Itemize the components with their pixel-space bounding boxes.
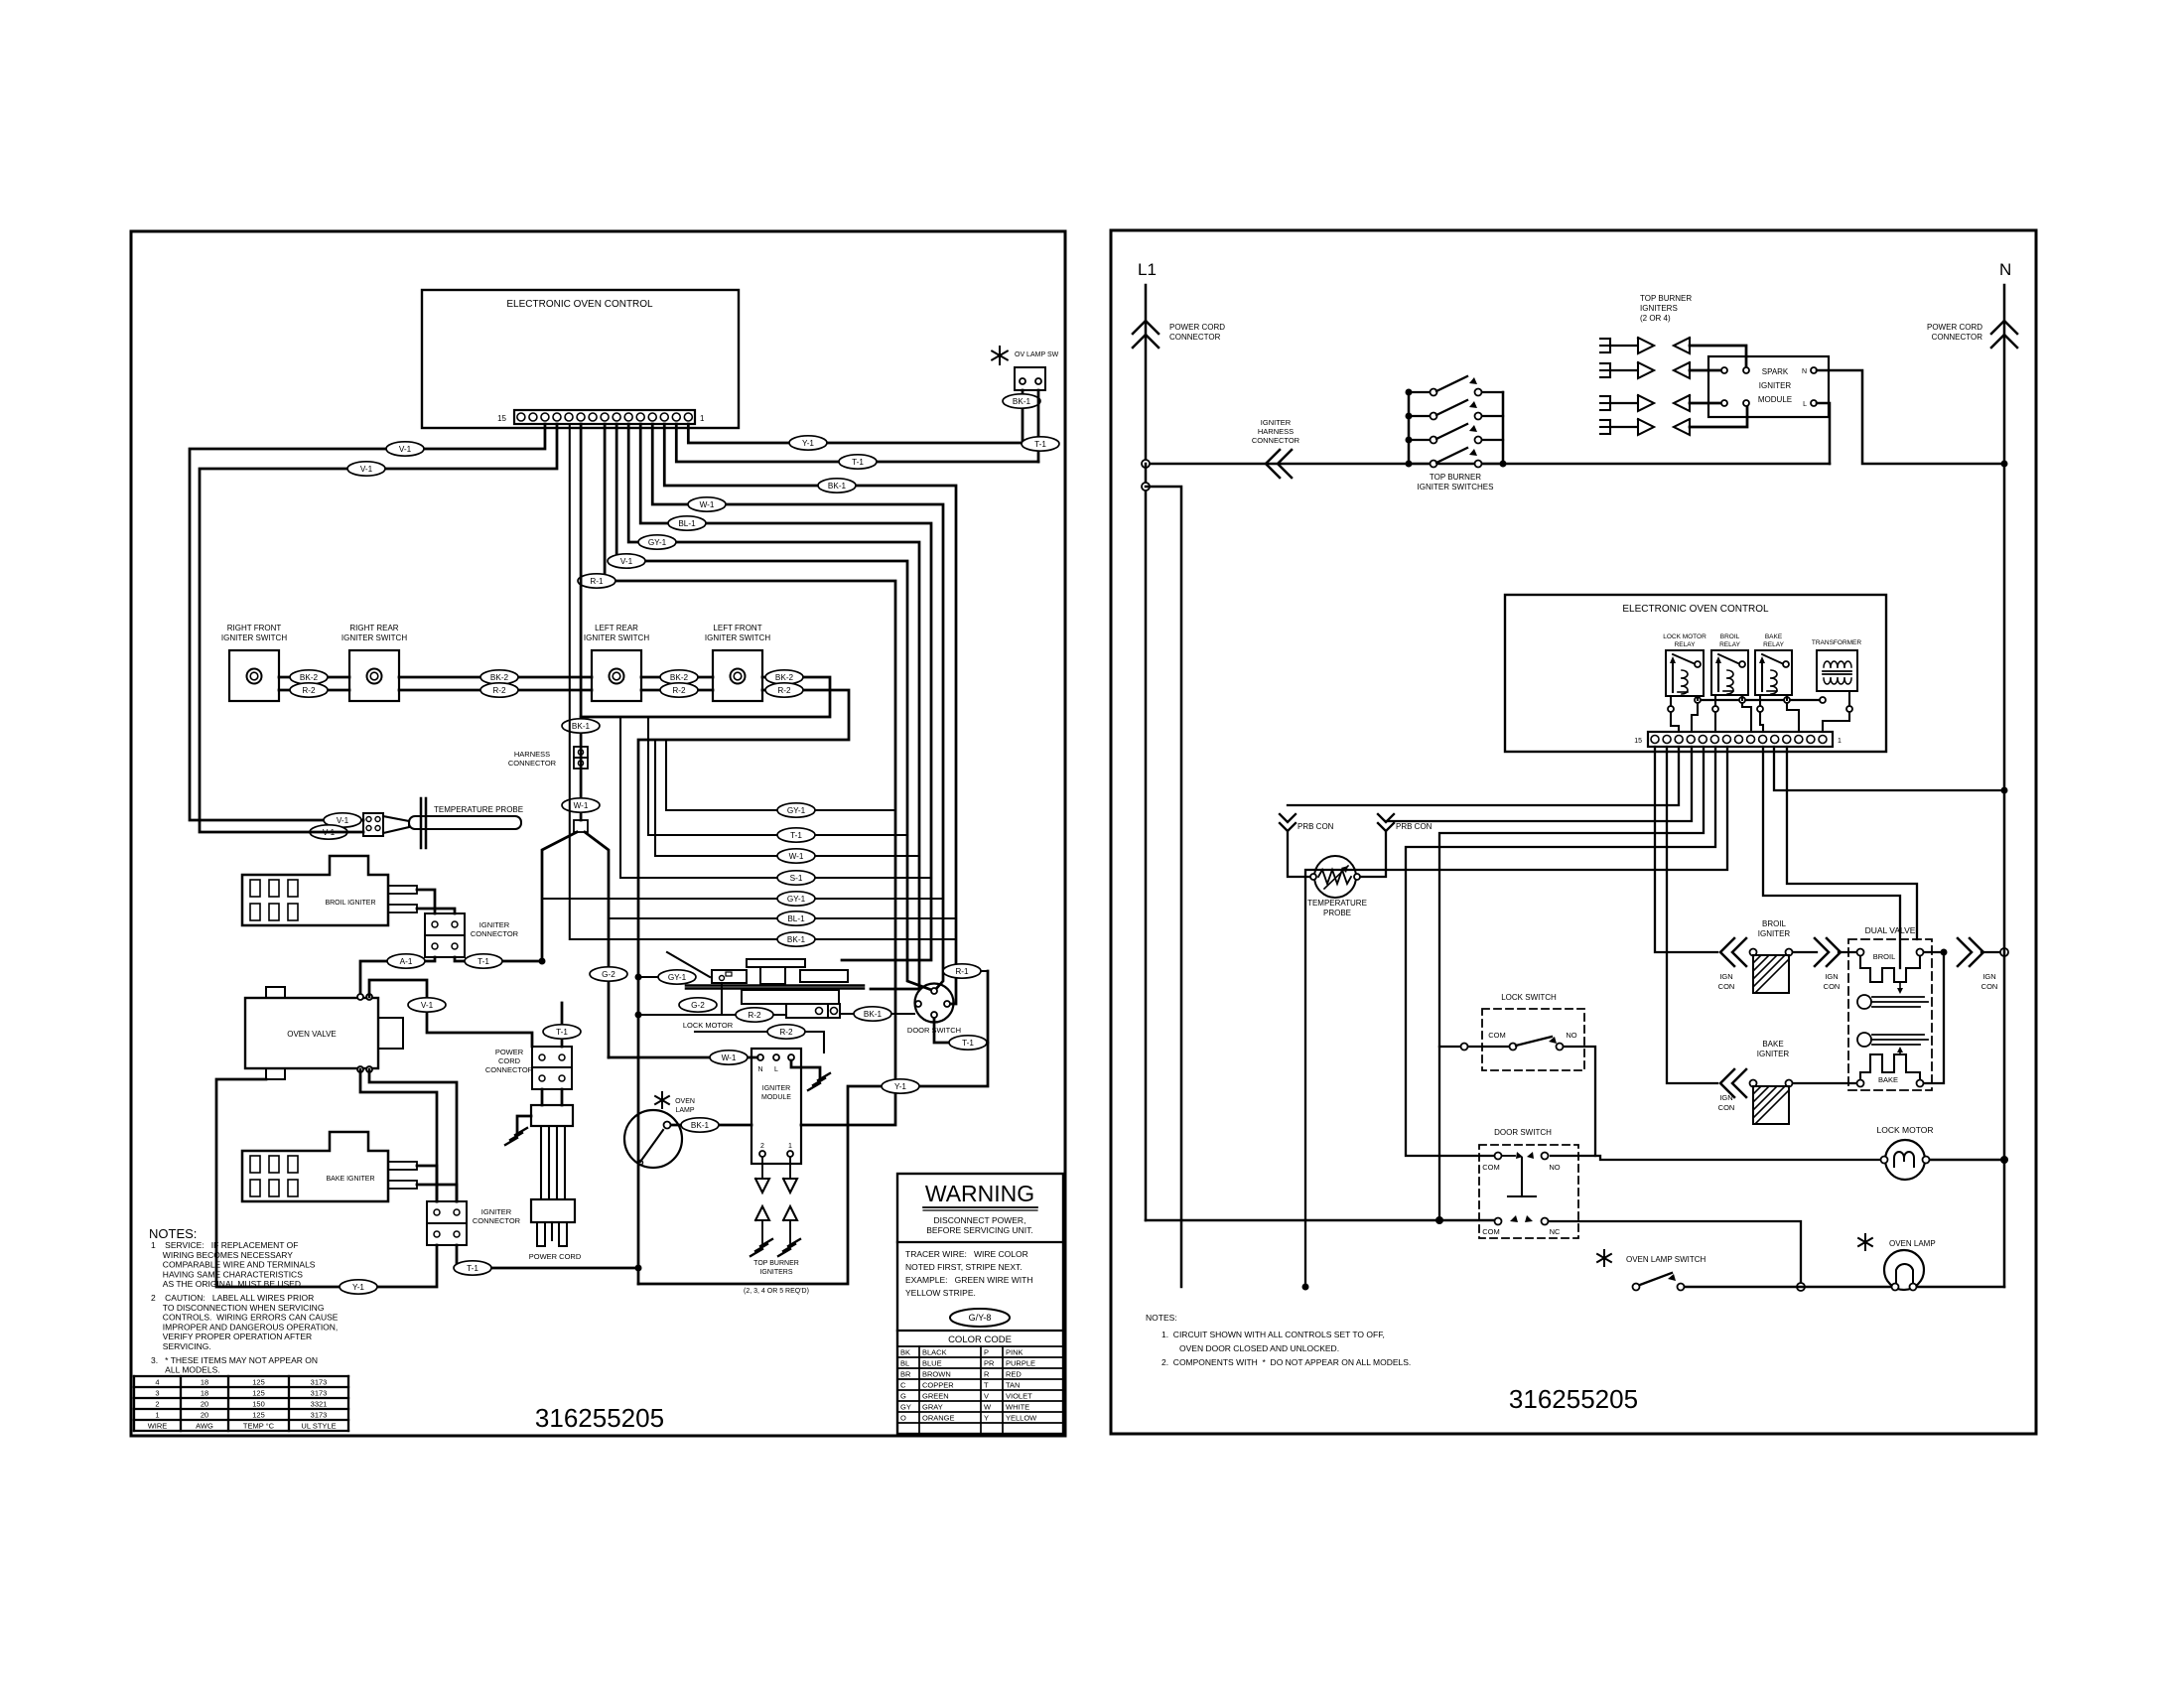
svg-text:GREEN: GREEN — [922, 1392, 949, 1401]
wire V-1 from oven valve upper pin — [369, 980, 532, 1047]
svg-text:R-2: R-2 — [672, 686, 686, 695]
svg-text:R-2: R-2 — [748, 1011, 761, 1020]
svg-text:BK-1: BK-1 — [787, 935, 806, 944]
svg-text:AS THE ORIGINAL MUST BE USED.: AS THE ORIGINAL MUST BE USED. — [151, 1279, 303, 1289]
wire pin to N rail (right) — [1774, 747, 2004, 790]
svg-text:TEMPERATURE: TEMPERATURE — [1307, 899, 1367, 908]
wire R-1 at door switch — [956, 970, 988, 972]
svg-text:OVEN LAMP SWITCH: OVEN LAMP SWITCH — [1626, 1255, 1706, 1264]
svg-text:316255205: 316255205 — [535, 1403, 664, 1433]
wire T-1 from bake connector to bottom bus — [457, 1245, 638, 1268]
svg-text:BROIL IGNITER: BROIL IGNITER — [325, 900, 375, 907]
svg-text:L: L — [774, 1066, 778, 1073]
wire T-1 door switch bottom — [934, 971, 988, 1043]
oven lamp switch S11 (page 2) — [1603, 1250, 1605, 1266]
wire W-1 into igniter module N — [609, 1056, 757, 1059]
svg-text:SPARK: SPARK — [1762, 367, 1789, 376]
svg-text:CONTROLS. WIRING ERRORS CAN C: CONTROLS. WIRING ERRORS CAN CAUSE — [151, 1313, 339, 1323]
svg-text:3173: 3173 — [311, 1389, 328, 1398]
right front igniter switch — [229, 650, 279, 701]
wire split to power cord connector — [542, 832, 577, 961]
svg-text:IGN: IGN — [1719, 972, 1732, 981]
wire Y-1 row to oven lamp switch — [688, 424, 1023, 443]
svg-text:150: 150 — [252, 1400, 265, 1409]
svg-text:S-1: S-1 — [790, 874, 803, 883]
svg-text:CONNECTOR: CONNECTOR — [473, 1216, 521, 1225]
svg-text:NC: NC — [1550, 1227, 1561, 1236]
wire pin11 jog down — [1787, 747, 1917, 939]
svg-text:IGNITER: IGNITER — [1759, 381, 1792, 390]
svg-text:HARNESS: HARNESS — [514, 750, 550, 759]
svg-text:POWER CORD: POWER CORD — [1169, 323, 1225, 332]
wire pin6 to door switch COM — [1406, 747, 1715, 1156]
svg-text:BK-1: BK-1 — [572, 722, 591, 731]
svg-text:PINK: PINK — [1006, 1348, 1024, 1357]
svg-text:LEFT FRONT: LEFT FRONT — [713, 624, 761, 632]
right rear igniter switch — [349, 650, 399, 701]
svg-text:N: N — [1999, 260, 2011, 279]
svg-text:CONNECTOR: CONNECTOR — [471, 929, 519, 938]
svg-text:LOCK MOTOR: LOCK MOTOR — [1663, 633, 1706, 640]
svg-text:T: T — [984, 1381, 989, 1390]
svg-text:W: W — [984, 1403, 992, 1412]
svg-text:2: 2 — [760, 1143, 764, 1150]
svg-text:TEMP °C: TEMP °C — [243, 1422, 275, 1431]
svg-text:GY-1: GY-1 — [668, 973, 687, 982]
wire door switch NC to lamp circuit — [1549, 1221, 1801, 1287]
svg-text:IGNITER SWITCH: IGNITER SWITCH — [341, 633, 407, 642]
igniter module A1 — [751, 1049, 801, 1164]
svg-text:TRACER WIRE: WIRE COLOR: TRACER WIRE: WIRE COLOR — [905, 1249, 1028, 1259]
svg-text:RELAY: RELAY — [1719, 641, 1740, 648]
svg-text:BL-1: BL-1 — [787, 914, 805, 923]
svg-text:2. COMPONENTS WITH * DO NOT: 2. COMPONENTS WITH * DO NOT APPEAR ON AL… — [1161, 1357, 1411, 1367]
svg-text:IGNITER: IGNITER — [481, 1207, 512, 1216]
svg-text:R-2: R-2 — [777, 686, 791, 695]
svg-text:HAVING SAME CHARACTERISTICS: HAVING SAME CHARACTERISTICS — [151, 1269, 303, 1279]
svg-text:OVEN VALVE: OVEN VALVE — [287, 1030, 337, 1039]
wire GY-1 center row 816 — [666, 740, 895, 810]
broil valve element — [1857, 949, 1864, 956]
svg-text:P: P — [984, 1348, 989, 1357]
splice node below harness connector — [574, 820, 588, 832]
power cord plug P5 — [531, 1199, 575, 1222]
bake igniter spade terminals — [388, 1162, 417, 1170]
svg-text:2: 2 — [155, 1400, 159, 1409]
svg-text:CONNECTOR: CONNECTOR — [1252, 436, 1300, 445]
wire lamp switch to oven lamp — [1685, 1286, 1891, 1289]
wire T-1 from igniter connector to power cord connector — [455, 957, 542, 961]
wire pin1 to broil igniter — [1655, 747, 1717, 952]
spark output leads to top burner igniters — [761, 1158, 763, 1178]
svg-text:VIOLET: VIOLET — [1006, 1392, 1032, 1401]
svg-text:PRB CON: PRB CON — [1297, 822, 1334, 831]
power cord connector chevrons (N) — [1991, 321, 2017, 334]
svg-text:TO DISCONNECTION WHEN SERVICIN: TO DISCONNECTION WHEN SERVICING — [151, 1303, 324, 1313]
igniter module ground — [791, 1060, 820, 1077]
EOC terminal strip P2 (pins 15..1) — [1648, 732, 1833, 747]
wire oven lamp to N rail — [1917, 1286, 2004, 1289]
wire pin3 to probe connector — [1288, 747, 1679, 805]
svg-text:R-1: R-1 — [590, 577, 604, 586]
svg-text:T-1: T-1 — [790, 831, 802, 840]
svg-text:COLOR CODE: COLOR CODE — [948, 1334, 1012, 1345]
PRB CON connector (left) — [1280, 814, 1296, 822]
svg-text:IGN: IGN — [1719, 1093, 1732, 1102]
svg-text:R-2: R-2 — [302, 686, 316, 695]
svg-text:CONNECTOR: CONNECTOR — [485, 1065, 534, 1074]
svg-text:1: 1 — [155, 1411, 159, 1420]
svg-text:BK-2: BK-2 — [670, 673, 689, 682]
svg-text:BROIL: BROIL — [1720, 633, 1740, 640]
svg-text:R: R — [984, 1370, 990, 1379]
svg-text:Y-1: Y-1 — [352, 1283, 364, 1292]
svg-text:GY-1: GY-1 — [787, 806, 806, 815]
svg-text:WHITE: WHITE — [1006, 1403, 1029, 1412]
svg-text:IGNITER SWITCH: IGNITER SWITCH — [705, 633, 770, 642]
svg-text:G-2: G-2 — [691, 1001, 705, 1010]
svg-text:GY-1: GY-1 — [787, 895, 806, 904]
spark module terminals wire BK-1 to oven lamp — [667, 1124, 751, 1127]
svg-text:PURPLE: PURPLE — [1006, 1359, 1035, 1368]
wire BK-1 stair row 489 — [664, 424, 956, 1004]
svg-text:BK-2: BK-2 — [775, 673, 794, 682]
page 1 border frame — [131, 231, 1065, 1436]
svg-text:IGN: IGN — [1825, 972, 1838, 981]
svg-text:15: 15 — [497, 414, 506, 423]
svg-text:V: V — [984, 1392, 989, 1401]
wire bake valve join to broil output — [1924, 955, 1944, 1083]
wire gauge table (page 1) — [134, 1375, 348, 1377]
svg-text:WIRING BECOMES NECESSARY: WIRING BECOMES NECESSARY — [151, 1250, 293, 1260]
svg-text:DUAL VALVE: DUAL VALVE — [1865, 925, 1916, 935]
broil igniter E1 (comb shape) — [242, 856, 388, 925]
igniter connector J2 — [427, 1201, 467, 1223]
svg-text:OVEN LAMP: OVEN LAMP — [1889, 1239, 1936, 1248]
broil valve actuator arrow — [1899, 982, 1901, 989]
wire from oven valve lower pins to bake connector — [360, 1069, 437, 1201]
tracer wire example oval G/Y-8 — [950, 1309, 1010, 1327]
svg-text:OV LAMP SW: OV LAMP SW — [1015, 351, 1059, 358]
bake igniter E2 (comb shape) — [242, 1132, 388, 1201]
svg-text:N: N — [757, 1066, 762, 1073]
svg-text:CON: CON — [1718, 1103, 1735, 1112]
wire R-2 from left-front wrap down long vertical — [638, 690, 849, 1284]
svg-text:1. CIRCUIT SHOWN WITH ALL CON: 1. CIRCUIT SHOWN WITH ALL CONTROLS SET T… — [1161, 1330, 1385, 1339]
lock motor latch arm — [667, 952, 710, 977]
wire Y-1 from bake connector to left rail — [216, 1079, 437, 1287]
wire R-2 below lock motor — [638, 1014, 786, 1016]
svg-text:YELLOW STRIPE.: YELLOW STRIPE. — [905, 1288, 976, 1298]
svg-text:SERVICING.: SERVICING. — [151, 1341, 211, 1351]
svg-text:G: G — [900, 1392, 906, 1401]
broil igniter E3 hatched — [1750, 949, 1757, 956]
relay contact bus — [1698, 699, 1823, 701]
wire broil valve to N rail — [1924, 951, 1940, 953]
svg-text:BAKE IGNITER: BAKE IGNITER — [326, 1176, 374, 1183]
svg-text:T-1: T-1 — [852, 458, 864, 467]
svg-text:3. * THESE ITEMS MAY NOT APP: 3. * THESE ITEMS MAY NOT APPEAR ON — [151, 1355, 318, 1365]
svg-text:20: 20 — [201, 1400, 208, 1409]
svg-text:L: L — [1803, 401, 1807, 408]
top burner igniter 2 — [1600, 362, 1610, 364]
spark igniter module A2 — [1708, 356, 1829, 417]
svg-text:1: 1 — [1838, 738, 1842, 745]
svg-text:IGNITER SWITCH: IGNITER SWITCH — [584, 633, 649, 642]
svg-text:ELECTRONIC OVEN CONTROL: ELECTRONIC OVEN CONTROL — [506, 299, 653, 310]
svg-text:CON: CON — [1824, 982, 1841, 991]
svg-text:C: C — [900, 1381, 906, 1390]
svg-text:NO: NO — [1566, 1031, 1576, 1040]
wire R-2 between igniter switches — [279, 689, 349, 692]
wire A-1 from igniter connector to oven valve — [360, 957, 435, 997]
wire broil igniter to connector — [417, 890, 435, 913]
svg-text:15: 15 — [1634, 738, 1642, 745]
wire GY-1 to latch arm — [638, 976, 669, 978]
wire L1 to oven lamp switch feed — [1146, 487, 1181, 1287]
wire Y-1 down to bottom bus — [638, 1043, 988, 1284]
svg-text:CON: CON — [1718, 982, 1735, 991]
svg-text:COM: COM — [1488, 1031, 1506, 1040]
svg-text:DOOR SWITCH: DOOR SWITCH — [1494, 1128, 1552, 1137]
svg-text:POWER CORD: POWER CORD — [1927, 323, 1982, 332]
svg-text:1: 1 — [700, 414, 705, 423]
svg-text:WIRE: WIRE — [148, 1422, 168, 1431]
svg-text:COPPER: COPPER — [922, 1381, 954, 1390]
svg-text:RIGHT REAR: RIGHT REAR — [349, 624, 398, 632]
svg-text:TOP BURNER: TOP BURNER — [1430, 473, 1481, 482]
svg-text:LOCK MOTOR: LOCK MOTOR — [1877, 1125, 1934, 1135]
svg-text:RED: RED — [1006, 1370, 1022, 1379]
svg-text:V-1: V-1 — [421, 1001, 434, 1010]
svg-text:GRAY: GRAY — [922, 1403, 943, 1412]
svg-text:IMPROPER AND DANGEROUS OPERATI: IMPROPER AND DANGEROUS OPERATION, — [151, 1322, 338, 1332]
wire pin7 to lock motor feed — [1305, 747, 1727, 1287]
svg-text:IGNITER: IGNITER — [1261, 418, 1292, 427]
svg-text:T-1: T-1 — [556, 1028, 568, 1037]
wire pin5 to lock switch — [1439, 747, 1704, 1220]
wire T-1 center row 841 — [648, 717, 907, 835]
svg-text:W-1: W-1 — [574, 801, 589, 810]
svg-text:Y: Y — [984, 1414, 989, 1423]
svg-text:G-2: G-2 — [602, 970, 615, 979]
svg-text:O: O — [900, 1414, 906, 1423]
svg-text:1: 1 — [788, 1143, 792, 1150]
svg-text:V-1: V-1 — [620, 557, 633, 566]
svg-text:125: 125 — [252, 1378, 265, 1387]
power cord connector chevrons (L1) — [1133, 321, 1159, 334]
svg-text:T-1: T-1 — [1034, 440, 1046, 449]
svg-text:L1: L1 — [1138, 260, 1157, 279]
svg-text:G/Y-8: G/Y-8 — [969, 1313, 992, 1323]
svg-text:IGNITER: IGNITER — [479, 920, 510, 929]
svg-text:PROBE: PROBE — [1323, 909, 1351, 917]
wire pin4 to probe connector — [1386, 747, 1692, 821]
svg-text:A-1: A-1 — [400, 957, 413, 966]
top burner igniter 3 — [1600, 395, 1610, 397]
svg-text:W-1: W-1 — [700, 500, 715, 509]
svg-text:CON: CON — [1981, 982, 1998, 991]
igniter connector J1 — [425, 913, 465, 935]
svg-text:RELAY: RELAY — [1763, 641, 1784, 648]
wire T-1 into power cord connector — [561, 1003, 564, 1047]
svg-text:IGNITER SWITCH: IGNITER SWITCH — [221, 633, 287, 642]
svg-text:UL STYLE: UL STYLE — [301, 1422, 336, 1431]
svg-text:POWER CORD: POWER CORD — [529, 1252, 582, 1261]
svg-text:LOCK SWITCH: LOCK SWITCH — [1501, 993, 1557, 1002]
svg-text:BAKE: BAKE — [1878, 1075, 1898, 1084]
bake valve actuator arrow — [1899, 1051, 1901, 1054]
wire split to igniter module side — [585, 832, 609, 1057]
svg-text:BK-1: BK-1 — [1013, 397, 1031, 406]
svg-text:HARNESS: HARNESS — [1258, 427, 1294, 436]
svg-text:TOP BURNER: TOP BURNER — [753, 1260, 799, 1267]
svg-text:TOP BURNER: TOP BURNER — [1640, 294, 1692, 303]
svg-text:(2 OR 4): (2 OR 4) — [1640, 314, 1671, 323]
wire BK-1 from oven lamp switch — [1022, 390, 1024, 443]
svg-text:EXAMPLE: GREEN WIRE WITH: EXAMPLE: GREEN WIRE WITH — [905, 1275, 1032, 1285]
svg-text:(2, 3, 4 OR 5 REQ'D): (2, 3, 4 OR 5 REQ'D) — [744, 1288, 809, 1295]
svg-text:125: 125 — [252, 1389, 265, 1398]
svg-text:TAN: TAN — [1006, 1381, 1020, 1390]
electronic oven control U1 (page 1) — [422, 290, 739, 428]
svg-text:R-1: R-1 — [955, 967, 969, 976]
svg-text:AWG: AWG — [196, 1422, 213, 1431]
svg-text:BLUE: BLUE — [922, 1359, 942, 1368]
wire R-2 left-rear to left-front — [641, 689, 713, 692]
svg-text:IGNITERS: IGNITERS — [1640, 304, 1678, 313]
svg-text:BAKE: BAKE — [1762, 1040, 1783, 1049]
temperature probe RT1 — [363, 813, 383, 836]
svg-text:BROIL: BROIL — [1762, 919, 1787, 928]
svg-text:ORANGE: ORANGE — [922, 1414, 955, 1423]
svg-text:ALL MODELS.: ALL MODELS. — [151, 1365, 220, 1375]
wire BL-1 center row 925 — [609, 917, 956, 919]
broil igniter spade terminals — [388, 886, 417, 894]
svg-text:W-1: W-1 — [722, 1053, 737, 1062]
wire door NO to lock motor — [1595, 1156, 1880, 1160]
wire V-1 row (pin 13 to left rail, to temperature probe) — [190, 424, 545, 820]
svg-text:3173: 3173 — [311, 1411, 328, 1420]
svg-text:POWER: POWER — [495, 1048, 524, 1056]
svg-text:BK-2: BK-2 — [300, 673, 319, 682]
wire lock switch NO to door switch NO — [1551, 1047, 1595, 1156]
svg-text:R-2: R-2 — [492, 686, 506, 695]
wire W-1 center row 862 — [655, 740, 919, 856]
svg-text:BK-1: BK-1 — [691, 1121, 710, 1130]
svg-text:V-1: V-1 — [360, 465, 373, 474]
svg-text:IGNITER SWITCHES: IGNITER SWITCHES — [1418, 483, 1494, 491]
color code table — [897, 1345, 1063, 1347]
svg-text:BAKE: BAKE — [1765, 633, 1783, 640]
bake solenoid — [1857, 1033, 1871, 1047]
svg-text:IGNITER: IGNITER — [762, 1085, 790, 1092]
svg-text:MODULE: MODULE — [1758, 395, 1792, 404]
wire V-1 lower (pin 12 to left rail, to probe lower pin) — [200, 424, 557, 832]
svg-text:2 CAUTION: LABEL ALL WIRE: 2 CAUTION: LABEL ALL WIRES PRIOR — [151, 1293, 314, 1303]
svg-text:DISCONNECT POWER,: DISCONNECT POWER, — [934, 1215, 1026, 1225]
svg-text:CORD: CORD — [498, 1056, 521, 1065]
wire S-1 center row 884 — [620, 717, 931, 878]
wire pin2 to bake igniter — [1667, 747, 1717, 1083]
svg-text:BL: BL — [900, 1359, 909, 1368]
power cord cable — [540, 1126, 542, 1199]
svg-text:COM: COM — [1482, 1163, 1500, 1172]
svg-text:3321: 3321 — [311, 1400, 328, 1409]
svg-text:BEFORE SERVICING UNIT.: BEFORE SERVICING UNIT. — [926, 1225, 1033, 1235]
igniter harness connector — [1266, 450, 1280, 478]
oven valve L1 (gas valve) — [245, 998, 378, 1068]
wire BK-2 between igniter switches — [279, 676, 349, 679]
svg-text:V-1: V-1 — [337, 816, 349, 825]
svg-text:W-1: W-1 — [789, 852, 804, 861]
svg-text:OVEN DOOR CLOSED AND UNLOCKED.: OVEN DOOR CLOSED AND UNLOCKED. — [1179, 1343, 1339, 1353]
svg-text:BK-1: BK-1 — [828, 482, 847, 491]
svg-text:T-1: T-1 — [478, 957, 489, 966]
wire BK-2 from left-front wrap to harness wire — [581, 677, 830, 717]
wire L1 to door switch COM (bottom) — [1146, 1219, 1494, 1222]
svg-text:V-1: V-1 — [399, 445, 412, 454]
oven lamp DS2 (page 2) — [1864, 1234, 1866, 1250]
svg-text:125: 125 — [252, 1411, 265, 1420]
svg-text:CONNECTOR: CONNECTOR — [508, 759, 557, 768]
L1 horizontal bus — [1146, 463, 1830, 466]
svg-text:COM: COM — [1482, 1227, 1500, 1236]
svg-text:BR: BR — [900, 1370, 911, 1379]
wire BK-2 left-rear to left-front — [641, 676, 713, 679]
svg-text:18: 18 — [201, 1389, 208, 1398]
bake valve element — [1857, 1080, 1864, 1087]
svg-text:20: 20 — [201, 1411, 208, 1420]
svg-text:VERIFY PROPER OPERATION AFTER: VERIFY PROPER OPERATION AFTER — [151, 1332, 312, 1341]
svg-text:T-1: T-1 — [962, 1039, 974, 1048]
svg-text:PRB CON: PRB CON — [1396, 822, 1433, 831]
svg-text:Y-1: Y-1 — [802, 439, 814, 448]
svg-text:IGNITER: IGNITER — [1758, 929, 1791, 938]
wire GY-1 stair row 546 — [628, 424, 919, 989]
page 2 border frame — [1111, 230, 2036, 1434]
N rail down to lamp circuit — [2003, 464, 2006, 1287]
wire R-2 run right-rear to left-rear — [399, 689, 592, 692]
svg-text:ELECTRONIC OVEN CONTROL: ELECTRONIC OVEN CONTROL — [1622, 604, 1769, 615]
oven lamp switch S2 (page 1 top right) — [999, 347, 1001, 364]
svg-text:R-2: R-2 — [779, 1028, 793, 1037]
wire V-1 stair row 565 — [616, 424, 934, 991]
left front igniter switch — [713, 650, 762, 701]
svg-text:BK-2: BK-2 — [490, 673, 509, 682]
svg-text:COMPARABLE WIRE AND TERMINALS: COMPARABLE WIRE AND TERMINALS — [151, 1260, 316, 1270]
bake igniter E4 hatched — [1750, 1080, 1757, 1087]
PRB CON connector (right) — [1378, 814, 1394, 822]
svg-text:RELAY: RELAY — [1675, 641, 1696, 648]
svg-text:BK-1: BK-1 — [864, 1010, 883, 1019]
relay wiring to terminal strip — [1671, 712, 1679, 732]
svg-text:WARNING: WARNING — [925, 1181, 1034, 1206]
ground lug G1 — [517, 1116, 531, 1132]
relay coil terminals — [1668, 706, 1674, 712]
top burner igniter switch bank S5-S8 — [1408, 392, 1411, 464]
broil solenoid — [1857, 995, 1871, 1009]
electronic oven control U2 (page 2) — [1505, 595, 1886, 752]
svg-text:BROIL: BROIL — [1873, 952, 1896, 961]
power cord strain relief block — [531, 1105, 573, 1126]
svg-text:GY-1: GY-1 — [648, 538, 667, 547]
wire BK-1 center row 946 — [570, 424, 956, 939]
svg-text:IGNITERS: IGNITERS — [759, 1269, 792, 1276]
wire bake igniter to bake valve — [1793, 1082, 1856, 1084]
svg-text:NOTES:: NOTES: — [1146, 1313, 1177, 1323]
top burner igniter 4 — [1600, 419, 1610, 421]
